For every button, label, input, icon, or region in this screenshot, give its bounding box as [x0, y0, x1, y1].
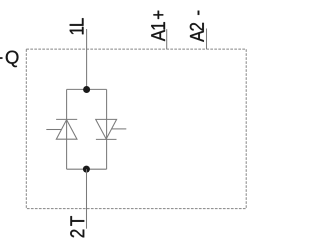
node bottom junction — [83, 166, 90, 173]
wire left branch — [66, 89, 68, 169]
wire bottom rail — [67, 168, 107, 170]
terminal label 2T — [70, 216, 84, 237]
wire A1+ lead — [166, 29, 168, 49]
thyristor V1 (left, cathode bar up) — [46, 119, 77, 139]
wire 1L lead — [86, 29, 88, 89]
wire 2T lead — [86, 169, 88, 229]
wire top rail — [67, 88, 107, 90]
terminal label A1+ — [151, 11, 165, 41]
thyristor V2 (right, cathode bar down) — [96, 119, 127, 139]
terminal label A2- — [190, 11, 204, 42]
wire right branch — [106, 89, 108, 169]
wire A2- lead — [206, 29, 208, 50]
enclosure outline (dashed) — [26, 49, 246, 209]
terminal label 1L — [70, 18, 84, 34]
label -Q — [0, 51, 18, 68]
node top junction — [83, 86, 90, 93]
